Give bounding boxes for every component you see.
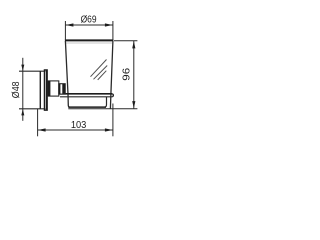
- flange front thick edge: [46, 70, 48, 110]
- boss outline: [48, 81, 59, 96]
- holder ring rolled top edge: [59, 93, 113, 95]
- neck dark left edge: [59, 84, 61, 94]
- svg-text:103: 103: [71, 119, 87, 131]
- collar dark block: [47, 82, 50, 96]
- boss dark left edge: [47, 81, 50, 96]
- dimension 103 right extension line: [112, 104, 114, 137]
- dimension 103 left arrow: [38, 128, 46, 131]
- glass rim: [65, 39, 114, 41]
- glass inner wall right: [105, 97, 107, 107]
- svg-text:Ø69: Ø69: [81, 13, 97, 25]
- neck outline: [59, 84, 65, 94]
- dimension 103 line: [38, 129, 113, 131]
- dimension 96 up arrow: [132, 41, 135, 48]
- dimension Ø48 down arrow: [21, 65, 24, 71]
- dimension Ø48 up arrow: [21, 109, 24, 115]
- glass hatching stroke 1: [91, 60, 107, 77]
- wall plate back edge: [39, 71, 41, 109]
- dimension 103 right arrow: [105, 128, 113, 131]
- dimension 96 down arrow: [132, 101, 135, 108]
- dimension Ø69 right extension line: [112, 21, 114, 40]
- svg-text:Ø48: Ø48: [10, 81, 22, 98]
- dimension 96 top extension line: [114, 40, 137, 42]
- wall plate bottom line: [19, 108, 45, 110]
- dimension Ø69 line: [65, 24, 113, 26]
- wall plate top line: [19, 70, 45, 72]
- wall plate flange: [44, 70, 47, 110]
- glass hatching stroke 2: [94, 66, 108, 80]
- dimension Ø69 right arrow: [105, 23, 113, 26]
- holder ring right cap: [112, 94, 113, 97]
- holder ring lower rim line: [60, 96, 112, 98]
- dimension 96 line: [133, 41, 135, 109]
- glass left wall: [65, 41, 70, 107]
- dimension Ø48 line with tails: [22, 58, 24, 121]
- dimension 96 bottom extension line: [68, 108, 137, 110]
- dimension Ø69 left arrow: [66, 23, 74, 26]
- glass base edge: [68, 106, 106, 108]
- dimension 103 left extension line: [37, 109, 39, 137]
- glass hatching stroke 3: [98, 71, 107, 80]
- glass right wall: [110, 41, 113, 109]
- neck dark right block: [62, 84, 65, 94]
- dimension Ø69 left extension line: [64, 21, 66, 40]
- glass rim inner edge: [66, 42, 112, 44]
- svg-text:96: 96: [122, 67, 133, 80]
